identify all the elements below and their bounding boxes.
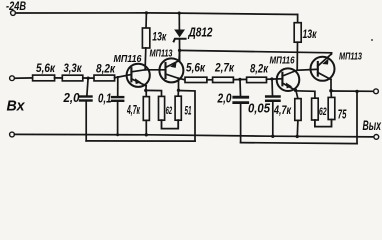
wire Q2 emitter to zener (178, 51, 181, 61)
capacitor C 2,0 (stage 1) (63, 78, 92, 141)
wire Q2 collector down (178, 78, 180, 90)
node output-bootstrap (355, 90, 358, 93)
svg-text:2,7к: 2,7к (214, 61, 235, 75)
node zener-longwire (178, 49, 181, 52)
transistor Q1 MP116 (114, 53, 150, 87)
stray speck (371, 39, 373, 41)
resistor R 4,7k (stage 1) (126, 97, 149, 121)
svg-text:4,7к: 4,7к (126, 102, 140, 117)
capacitor C 0,1 (98, 77, 123, 135)
node Q2 collector (177, 89, 180, 92)
node C0,05-ground (271, 135, 274, 138)
wire feedback bus (stage 2) (241, 143, 357, 144)
wire emitter node to R4,7k top (145, 90, 147, 96)
svg-text:МП116: МП116 (270, 55, 295, 67)
svg-text:5,6к: 5,6к (36, 61, 56, 75)
resistor R 75 (328, 97, 347, 121)
svg-text:4,7к: 4,7к (273, 103, 291, 117)
svg-text:13к: 13к (303, 27, 318, 41)
wire bracket joining R62 R51 bottoms (162, 120, 179, 128)
wire node to R75 top (330, 91, 332, 98)
svg-text:Д812: Д812 (188, 24, 213, 39)
svg-text:МП116: МП116 (114, 53, 142, 65)
node Q1 emitter (144, 89, 147, 92)
resistor R 2,7k (stage 2) (213, 61, 235, 83)
svg-text:0,05: 0,05 (248, 102, 271, 116)
svg-text:Вых: Вых (363, 117, 382, 133)
resistor R 51 (stage 1) (175, 96, 192, 120)
svg-text:13к: 13к (152, 29, 167, 43)
node rail-13k1 (145, 11, 148, 14)
zener diode D812 (174, 13, 213, 60)
wire Q1 emitter down (145, 86, 147, 91)
svg-text:62: 62 (166, 105, 173, 117)
wire R8,2k to Q1 base (115, 75, 132, 78)
wire with node A (83, 77, 94, 79)
svg-text:62: 62 (319, 106, 327, 118)
ground terminal (input side) (10, 132, 15, 137)
wire bootstrap drop (stage 2) (356, 91, 358, 143)
svg-text:2,0: 2,0 (217, 92, 232, 106)
wire with node B (233, 78, 246, 80)
capacitor C 2,0 (stage 2) (217, 79, 248, 142)
capacitor C 0,05 (248, 79, 280, 136)
svg-text:0,1: 0,1 (98, 91, 112, 105)
svg-text:51: 51 (185, 104, 192, 118)
resistor R 13k (stage 1) (142, 13, 167, 70)
wire R4,7k-2 to ground (296, 120, 299, 136)
wire node to R51 top (177, 90, 179, 96)
wire top rail (16, 13, 298, 15)
wire ground rail (15, 134, 374, 137)
node Q3 emitter (294, 89, 297, 92)
wire Q3 collector to Q4 base (297, 68, 318, 71)
transistor Q3 MP116 (270, 55, 300, 91)
svg-text:2,0: 2,0 (63, 91, 80, 105)
wire emitter node to R62 top (146, 90, 162, 96)
resistor R 8,2k (stage 1) (94, 61, 116, 81)
wire emitter node to R4,7k-2 top (296, 90, 298, 98)
wire Q2 collector to stage2 (179, 78, 186, 80)
node C0,1-ground (116, 133, 119, 136)
wire R4,7k to ground (145, 120, 147, 134)
node R4,7k-ground (145, 133, 148, 136)
resistor R 3,3k (stage 1) (62, 61, 83, 81)
wire node right to bootstrap drop (179, 91, 196, 142)
svg-text:3,3к: 3,3к (64, 61, 83, 75)
wire feedback bus (stage 1) (86, 140, 195, 142)
resistor R 8,2k (stage 2) (247, 62, 269, 83)
supply terminal (11, 11, 16, 16)
wire output (331, 90, 374, 92)
node rail-zener (178, 12, 181, 15)
resistor R 13k (stage 2) (294, 15, 317, 71)
wire Q4 emitter corner (330, 53, 333, 54)
output terminal (bottom) (374, 135, 379, 140)
svg-text:МП113: МП113 (339, 52, 362, 63)
resistor R 5,6k (stage 2) (185, 61, 207, 83)
wire (55, 77, 63, 79)
node Q4 collector (329, 89, 333, 93)
svg-text:МП113: МП113 (150, 49, 173, 60)
wire zener node to Q4 emitter (long top wire) (180, 50, 332, 53)
wire input to R5.6k (15, 77, 33, 79)
wire Q1 collector to Q2 base (145, 69, 165, 71)
resistor R 62 (stage 1) (159, 96, 173, 120)
input terminal (10, 76, 15, 81)
svg-text:5,6к: 5,6к (186, 61, 206, 75)
output terminal (top) (374, 89, 379, 94)
resistor R 4,7k (stage 2) (273, 99, 301, 121)
wire (207, 79, 213, 81)
wire R8,2k2 to Q3 base with node C (267, 78, 283, 80)
wire bracket joining R62-2 R75 bottoms (315, 120, 332, 127)
wire Q4 collector down (330, 80, 332, 91)
svg-text:8,2к: 8,2к (250, 62, 269, 76)
svg-text:75: 75 (338, 107, 347, 121)
transistor Q4 MP113 (311, 52, 363, 81)
node R4,7k2-ground (296, 135, 299, 138)
resistor R 62 (stage 2) (312, 98, 327, 120)
svg-text:Вх: Вх (7, 98, 26, 115)
transistor Q2 MP113 (150, 49, 184, 83)
wire emitter node to R62-2 top (296, 91, 315, 98)
resistor R 5,6k (stage 1) (33, 61, 56, 81)
svg-text:-24В: -24В (6, 0, 26, 13)
